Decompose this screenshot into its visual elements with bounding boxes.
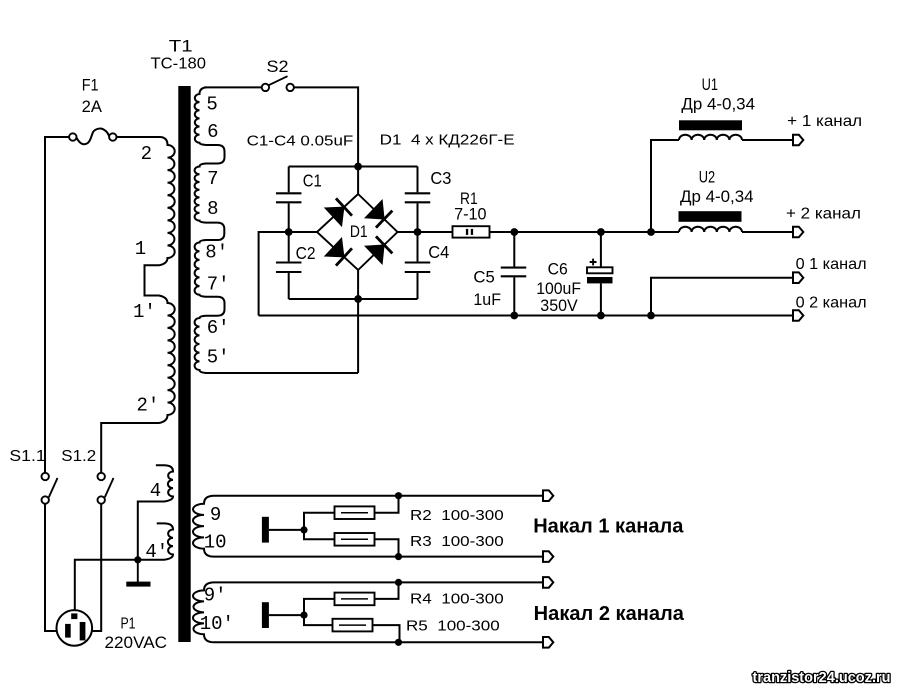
connector heater2 bottom: [543, 637, 553, 648]
connector heater2 top: [543, 577, 553, 588]
node R3 bottom: [395, 553, 402, 560]
svg-text:1: 1: [135, 238, 146, 260]
svg-text:7: 7: [207, 168, 218, 190]
svg-text:5: 5: [206, 93, 217, 115]
svg-text:F1: F1: [82, 77, 99, 95]
wire C6 top lead: [600, 232, 602, 267]
svg-text:4: 4: [150, 480, 161, 502]
node C6 plus: [597, 228, 605, 236]
svg-text:S1.1: S1.1: [9, 448, 45, 465]
svg-text:R4 100-300: R4 100-300: [410, 591, 504, 608]
capacitor C3: [405, 193, 431, 202]
svg-text:U2: U2: [699, 167, 715, 186]
svg-text:C2: C2: [296, 243, 316, 263]
node plus rail U1 branch: [647, 228, 655, 236]
node bridge top: [354, 163, 362, 171]
svg-text:10': 10': [200, 613, 234, 635]
svg-text:T1: T1: [169, 38, 193, 56]
switch S1.1: [42, 473, 58, 504]
capacitor C4: [405, 263, 431, 273]
wire S1.1 to plug: [45, 504, 65, 631]
capacitor C1: [276, 193, 302, 202]
node R4 top: [395, 579, 402, 586]
plug P1: [57, 610, 93, 646]
wire right rail mid: [417, 203, 419, 261]
wire fuse to primary: [117, 136, 161, 138]
wire zero ch1: [651, 278, 793, 316]
wire bridge plus lead: [398, 231, 453, 233]
wire C6 bottom lead: [600, 283, 602, 315]
wire balance bar 2: [269, 614, 304, 616]
svg-text:5': 5': [207, 346, 230, 368]
transformer winding 9'-10' loop: [193, 582, 543, 642]
svg-text:tranzistor24.ucoz.ru: tranzistor24.ucoz.ru: [753, 670, 891, 686]
wire R4 right: [375, 582, 399, 599]
svg-text:2': 2': [137, 395, 160, 417]
svg-text:4': 4': [145, 541, 168, 563]
node C5 plus: [510, 228, 518, 236]
wire left rail lower: [288, 273, 290, 299]
svg-text:Др 4-0,34: Др 4-0,34: [681, 94, 755, 113]
wire C5 bottom lead: [513, 277, 515, 315]
svg-text:1': 1': [133, 301, 156, 323]
svg-text:C6: C6: [548, 261, 568, 279]
wire C5 top lead: [513, 232, 515, 267]
wire bridge AC bottom: [357, 270, 359, 373]
transformer T1 core: [178, 86, 190, 642]
svg-text:9: 9: [210, 504, 221, 526]
wire secondary 5 to S2: [204, 86, 262, 88]
svg-text:Накал 1 канала: Накал 1 канала: [533, 516, 684, 538]
wire right rail lower: [417, 273, 419, 299]
connector 0 2 channel: [793, 310, 803, 321]
svg-text:7-10: 7-10: [454, 205, 486, 224]
wire R2 left: [304, 513, 335, 530]
wire bridge top rail: [289, 166, 418, 168]
node C6 minus: [597, 312, 605, 320]
capacitor C5: [501, 268, 527, 277]
svg-text:6': 6': [207, 317, 230, 339]
wire R2 right: [375, 496, 399, 513]
svg-text:350V: 350V: [540, 296, 578, 315]
diode bridge D1 diamond: [317, 194, 398, 270]
wire R4 left: [304, 599, 335, 615]
svg-text:0 2 канал: 0 2 канал: [796, 295, 867, 312]
switch S1.2: [98, 473, 114, 504]
svg-text:R2 100-300: R2 100-300: [410, 507, 504, 524]
node hum balance 1: [300, 526, 307, 533]
wire balance bar 1: [269, 529, 304, 531]
connector +1 channel: [793, 135, 803, 146]
wire left rail mid: [288, 203, 290, 261]
connector +2 channel: [793, 227, 803, 238]
svg-text:7': 7': [207, 274, 230, 296]
svg-text:P1: P1: [121, 616, 136, 633]
node hum balance 2: [300, 612, 307, 619]
node C1-C2 junction: [285, 228, 293, 236]
hum balance bar 2: [262, 602, 269, 628]
wire bridge minus lead: [259, 232, 317, 316]
wire zero rail: [259, 315, 793, 317]
svg-text:U1: U1: [702, 75, 718, 94]
svg-text:220VAC: 220VAC: [105, 633, 168, 652]
svg-text:+ 1 канал: + 1 канал: [787, 113, 862, 130]
diode D1 upper-left: [325, 197, 353, 226]
resistor R4: [335, 593, 375, 606]
svg-text:C5: C5: [473, 267, 494, 286]
svg-text:0 1 канал: 0 1 канал: [796, 256, 867, 273]
ground: [126, 560, 150, 587]
connector heater1 top: [543, 490, 553, 501]
wire S2 to bridge top: [294, 87, 358, 166]
svg-text:9': 9': [204, 584, 227, 606]
node bridge bottom: [354, 295, 362, 303]
svg-text:R5 100-300: R5 100-300: [406, 617, 500, 634]
wire U1 branch: [651, 140, 679, 232]
svg-text:C4: C4: [428, 242, 449, 262]
wire bridge bottom rail: [289, 298, 418, 300]
fuse F1: [69, 129, 116, 145]
transformer winding 9-10 loop: [193, 496, 543, 557]
svg-text:TC-180: TC-180: [151, 56, 207, 73]
resistor R5: [333, 619, 373, 632]
svg-text:2: 2: [141, 143, 152, 165]
transformer secondary winding 5-6-7-8-8'-7'-6'-5': [195, 87, 359, 373]
connector 0 1 channel: [793, 272, 803, 283]
svg-text:+ 2 канал: + 2 канал: [786, 205, 861, 222]
svg-text:10: 10: [204, 531, 227, 553]
svg-text:8': 8': [205, 242, 228, 264]
connector heater1 bottom: [543, 551, 553, 562]
capacitor C6: [587, 259, 613, 284]
wire left rail upper: [288, 167, 290, 193]
wire right rail upper: [417, 167, 419, 193]
wire R5 left: [304, 615, 333, 625]
wire S1.2 to plug: [85, 504, 101, 631]
svg-text:C1: C1: [303, 170, 322, 190]
wire winding 4-4prime node to plug top: [75, 560, 138, 614]
wire R3 left: [304, 530, 335, 539]
svg-text:C1-C4 0.05uF: C1-C4 0.05uF: [247, 134, 354, 150]
svg-text:D1: D1: [350, 222, 368, 241]
wire R5 right: [373, 625, 400, 642]
node winding4-4' junction: [134, 556, 141, 563]
diode D1 lower-right: [365, 235, 394, 264]
wire U1 to output: [742, 139, 793, 141]
svg-text:100uF: 100uF: [536, 279, 581, 298]
svg-text:D1 4 x КД226Г-Е: D1 4 x КД226Г-Е: [380, 132, 515, 149]
wire R1 to plus rail: [490, 231, 680, 233]
node R5 bottom: [395, 639, 402, 646]
transformer primary winding 2-1-1'-2': [101, 137, 175, 473]
svg-text:Др 4-0,34: Др 4-0,34: [680, 187, 754, 206]
svg-text:Накал 2 канала: Накал 2 канала: [534, 603, 685, 625]
svg-text:S2: S2: [267, 57, 289, 76]
svg-text:8: 8: [207, 198, 218, 220]
wire mains left rail: [45, 137, 69, 473]
diode D1 lower-left: [325, 238, 353, 267]
capacitor C2: [276, 263, 302, 273]
resistor R1: [453, 226, 490, 237]
wire U2 to output: [742, 231, 793, 233]
inductor U1: [679, 120, 742, 140]
transformer winding 4': [139, 523, 173, 559]
svg-text:6: 6: [207, 121, 218, 143]
inductor U2: [679, 211, 743, 232]
svg-text:R3 100-300: R3 100-300: [410, 533, 504, 550]
node C5 minus: [510, 312, 518, 320]
resistor R3: [335, 533, 375, 546]
diode D1 upper-right: [365, 200, 394, 229]
hum balance bar 1: [262, 517, 269, 543]
wire R3 right: [375, 539, 399, 556]
transformer winding 4: [138, 465, 173, 559]
switch S2: [262, 76, 294, 91]
node R2 top: [395, 492, 402, 499]
svg-text:C3: C3: [430, 168, 451, 188]
resistor R2: [335, 506, 375, 519]
svg-text:S1.2: S1.2: [61, 448, 96, 465]
svg-text:1uF: 1uF: [473, 290, 501, 309]
wire bridge AC top lead: [357, 167, 359, 195]
node C3-C4 junction: [414, 228, 422, 236]
svg-text:2A: 2A: [82, 98, 102, 116]
node zero-U1 branch: [647, 312, 655, 320]
